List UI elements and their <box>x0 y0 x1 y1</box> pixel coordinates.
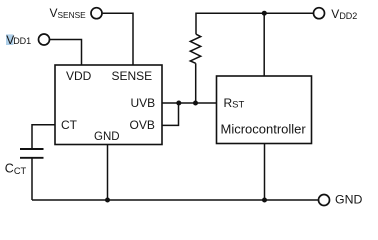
svg-text:RST: RST <box>224 96 245 111</box>
svg-text:GND: GND <box>94 131 120 143</box>
svg-text:VDD: VDD <box>66 69 92 83</box>
svg-text:DD1: DD1 <box>13 36 31 46</box>
svg-text:UVB: UVB <box>131 96 156 110</box>
svg-text:CT: CT <box>61 118 78 132</box>
svg-text:VSENSE: VSENSE <box>50 6 87 20</box>
svg-text:CCT: CCT <box>5 162 27 176</box>
svg-text:VDD2: VDD2 <box>331 7 357 21</box>
svg-text:Microcontroller: Microcontroller <box>221 121 307 136</box>
svg-text:GND: GND <box>335 193 362 207</box>
svg-text:SENSE: SENSE <box>112 69 153 83</box>
svg-text:OVB: OVB <box>130 118 155 132</box>
